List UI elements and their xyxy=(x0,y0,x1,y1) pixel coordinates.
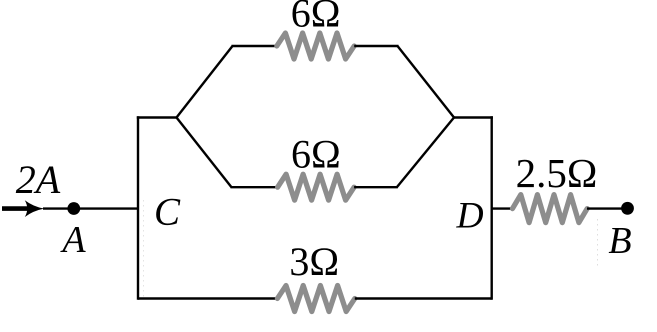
wire: top branch right horizontal xyxy=(354,45,398,47)
wire: diagonal up-right of middle branch xyxy=(397,118,454,188)
wire: middle branch left horizontal xyxy=(231,186,279,188)
svg-text:C: C xyxy=(154,191,181,234)
svg-text:2A: 2A xyxy=(16,157,61,202)
resistor R2 6ohm (middle) xyxy=(278,174,355,200)
faint guide line right xyxy=(597,219,599,266)
wire: left vertical (node C riser) xyxy=(137,118,139,299)
wire: middle branch right horizontal xyxy=(354,186,398,188)
svg-text:3Ω: 3Ω xyxy=(289,239,339,284)
wire: left top stub xyxy=(137,116,177,118)
svg-text:6Ω: 6Ω xyxy=(291,131,341,176)
wire: node D to resistor xyxy=(492,207,513,209)
svg-text:D: D xyxy=(455,196,483,237)
wire: bottom right segment xyxy=(355,297,492,299)
svg-text:6Ω: 6Ω xyxy=(291,0,341,36)
resistor R1 6ohm (top) xyxy=(277,33,354,59)
wire: diagonal up-left of top branch xyxy=(177,46,233,118)
svg-text:B: B xyxy=(608,220,631,262)
node B xyxy=(621,202,634,215)
wire: right vertical (node D riser) xyxy=(491,118,493,299)
wire: top branch left horizontal xyxy=(232,45,278,47)
wire: diagonal down-right of top branch xyxy=(398,46,455,118)
faint guide line left xyxy=(143,200,145,300)
svg-text:2.5Ω: 2.5Ω xyxy=(516,150,598,196)
node A xyxy=(67,202,80,215)
wire: source to node C xyxy=(43,207,139,209)
svg-text:A: A xyxy=(59,219,86,261)
resistor R4 2.5ohm xyxy=(513,195,588,223)
wire: bottom left segment xyxy=(138,297,278,299)
wire: resistor to node B xyxy=(587,207,628,209)
resistor R3 3ohm (bottom) xyxy=(277,286,354,312)
wire: right top stub xyxy=(454,116,493,118)
current arrow 2A xyxy=(2,200,44,217)
wire: diagonal down-left of middle branch xyxy=(177,118,232,188)
